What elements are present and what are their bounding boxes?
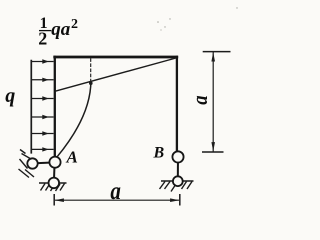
lower support circle (49, 178, 60, 189)
frame beam (53, 56, 178, 59)
svg-text:a: a (189, 95, 213, 104)
ground line under B support (161, 180, 194, 182)
svg-text:q: q (5, 85, 15, 107)
hinge circle B (172, 151, 183, 162)
svg-text:B: B (153, 145, 165, 162)
wall hatching left support (19, 150, 35, 178)
svg-text:A: A (66, 147, 78, 166)
load arrow 2 (31, 78, 53, 82)
left column (54, 56, 56, 157)
moment label 1/2 qa^2 (38, 15, 78, 49)
load arrow 6 (31, 147, 53, 151)
faint scan speckles (157, 7, 238, 30)
svg-text:qa: qa (51, 19, 70, 40)
junction blob where parabola meets diagonal (89, 81, 93, 85)
load arrow 1 (31, 59, 53, 63)
ground line under lower support (39, 182, 67, 184)
left support circle (27, 158, 37, 168)
ground hatching B support (160, 182, 193, 192)
vertical link below B (177, 157, 179, 181)
right column (176, 56, 178, 152)
hinge circle A (49, 157, 60, 168)
load arrow 5 (31, 131, 53, 135)
svg-text:2: 2 (38, 29, 47, 49)
ground hatching lower support (41, 184, 65, 192)
distributed load line (30, 60, 32, 154)
load arrow 4 (31, 115, 53, 119)
svg-text:a: a (110, 176, 121, 204)
load arrow 3 (31, 96, 53, 100)
vertical support link below A (53, 162, 56, 183)
right dimension line (202, 52, 231, 152)
svg-text:2: 2 (71, 17, 78, 32)
moment diagram diagonal line on beam (55, 58, 176, 91)
B support circle (173, 176, 183, 186)
moment parabola on left column (57, 81, 91, 158)
bottom dimension line (54, 194, 180, 206)
construction vertical dashed line (90, 58, 92, 81)
horizontal support link at A (33, 162, 56, 163)
